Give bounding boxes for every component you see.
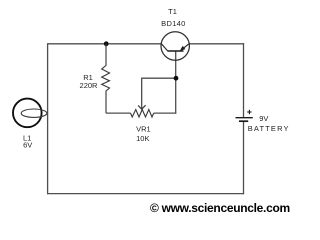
svg-text:BD140: BD140 — [161, 19, 185, 28]
potentiometer VR1 — [131, 78, 154, 117]
resistor R1 — [102, 44, 110, 113]
battery plus sign — [247, 110, 251, 114]
svg-text:T1: T1 — [168, 7, 177, 16]
wire right rail upper (to battery +) — [243, 43, 245, 118]
junction node A (top rail / R1 top) — [104, 41, 109, 46]
wire bottom rail — [47, 193, 244, 195]
wire left rail — [47, 43, 49, 194]
svg-text:10K: 10K — [136, 134, 149, 143]
junction node B (base / wiper) — [174, 76, 179, 81]
svg-text:© www.scienceuncle.com: © www.scienceuncle.com — [150, 201, 290, 215]
wire top rail right segment — [189, 43, 244, 45]
svg-text:BATTERY: BATTERY — [248, 124, 290, 133]
wire VR1 right terminal to base line — [154, 112, 177, 114]
svg-text:VR1: VR1 — [136, 124, 151, 133]
wire R1 bottom to VR1 left terminal — [106, 112, 131, 114]
wire base line vertical (transistor base to VR1 right) — [175, 51, 177, 114]
svg-text:9V: 9V — [259, 114, 268, 123]
svg-text:220R: 220R — [80, 81, 99, 90]
lamp L1 — [13, 99, 47, 128]
battery BT1 — [236, 118, 253, 122]
wire top rail left segment — [48, 43, 162, 45]
svg-text:6V: 6V — [23, 141, 32, 150]
transistor T1 — [161, 32, 189, 60]
wire VR1 wiper to node B — [141, 77, 176, 79]
wire right rail lower (battery - to bottom rail) — [243, 121, 245, 194]
